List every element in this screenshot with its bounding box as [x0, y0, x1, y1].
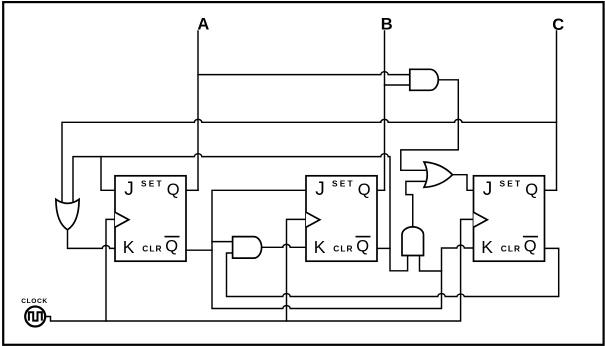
wire branch to J input of U1 [101, 157, 115, 191]
AND gate U4 (top) [410, 69, 439, 90]
svg-text:Q: Q [165, 238, 178, 256]
svg-text:SET: SET [500, 178, 523, 188]
svg-text:K: K [314, 237, 326, 257]
wire A to AND gate U4 input 1 (hop over B) [198, 72, 410, 75]
wire Q-bar3 to AND U2 input 2 (hops over clock feeds and verticals) [227, 248, 559, 296]
AND gate U7 (up-pointing) [402, 227, 424, 256]
flip-flop U2ff [306, 176, 377, 261]
wire clock feed to FF2 clock [287, 219, 307, 321]
svg-text:K: K [123, 237, 135, 257]
wire AND U2 output to K input of U2ff (hop over clock feed 2) [261, 244, 306, 247]
svg-text:Q: Q [356, 238, 369, 256]
svg-text:Q: Q [167, 181, 180, 199]
node B vertical wire [384, 31, 386, 190]
OR gate U5 (down-pointing) [56, 199, 79, 230]
clock source [21, 298, 47, 327]
wire clock feed to FF1 clock [106, 219, 115, 321]
svg-text:Q: Q [358, 181, 371, 199]
svg-text:Q: Q [525, 181, 538, 199]
svg-text:J: J [483, 179, 493, 200]
node C vertical wire [556, 31, 558, 190]
svg-text:CLOCK: CLOCK [21, 298, 47, 305]
svg-text:C: C [552, 16, 564, 34]
wire Q2 output to node B [377, 189, 385, 191]
svg-text:SET: SET [332, 178, 355, 188]
wire to AND U2 input 1 [212, 241, 232, 243]
wire branch to AND U7 input 2 pin [420, 256, 442, 272]
wire OR U6 output to J input of U3 [453, 175, 474, 191]
svg-text:B: B [381, 16, 393, 34]
svg-text:K: K [481, 237, 493, 257]
wire Q-bar2 output to net [377, 247, 390, 249]
wire Q3 output to node C [545, 189, 557, 191]
wire OR U5 output to K input of U1 (hop over clock feed) [68, 230, 116, 249]
svg-text:CLR: CLR [501, 244, 521, 254]
AND gate U2 (middle left) [233, 237, 262, 259]
wire Q-bar1 output to J2 net [186, 249, 212, 251]
wire Q-bar1/J2 net: J2 wire, vertical, bottom rail to K3 and AND U7 input 2 (hop over clock feed 2) [212, 190, 474, 308]
svg-text:J: J [124, 179, 134, 200]
svg-text:SET: SET [141, 178, 164, 188]
OR gate U6 (right-pointing) [424, 162, 453, 187]
svg-text:CLR: CLR [333, 244, 353, 254]
svg-text:J: J [315, 179, 325, 200]
wire clock rail from source to FF3 clock [45, 219, 474, 321]
flip-flop U1 [115, 176, 186, 261]
svg-text:A: A [197, 16, 209, 34]
wire B to AND gate U4 input 2 [385, 84, 410, 86]
wire Q-bar2 net to OR gate U5 input 2 / J1 / AND U7 input 1 (hops over A, B) [73, 154, 408, 271]
wire AND U7 output to OR U6 input 2 [406, 181, 428, 227]
wire AND U4 output to OR U6 input 1 [401, 80, 459, 171]
wire Q3/C to OR gate U5 input 1 (hops over A, B, U4 output vertical) [62, 119, 557, 202]
wire Q1 output to node A [186, 189, 198, 191]
svg-text:CLR: CLR [142, 244, 162, 254]
node A vertical wire [197, 31, 199, 190]
flip-flop U3 [474, 176, 545, 261]
svg-text:Q: Q [524, 238, 537, 256]
